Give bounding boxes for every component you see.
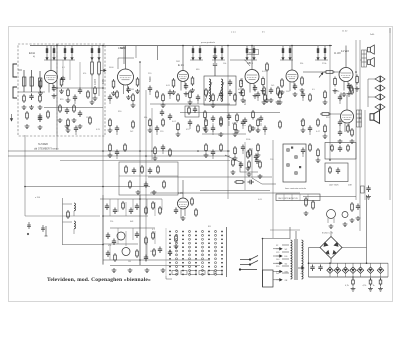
resistor R61	[249, 124, 252, 133]
winding L3	[74, 203, 75, 211]
ground	[174, 244, 179, 249]
ground	[368, 287, 373, 292]
transformer tap 4	[282, 265, 289, 267]
ground	[241, 98, 246, 103]
resistor R108	[329, 166, 332, 174]
ground	[38, 91, 43, 96]
ground	[350, 139, 355, 144]
terminal board dot grid	[169, 231, 223, 276]
ground	[161, 103, 166, 108]
capacitor bypass V1 EF80	[52, 85, 56, 92]
capacitor C17	[338, 95, 342, 102]
capacitor C21	[188, 120, 192, 127]
wire	[273, 279, 276, 281]
wire rail x245	[244, 142, 246, 190]
capacitor C37	[144, 182, 148, 189]
tube V7 EL41	[341, 110, 354, 132]
wire	[169, 96, 171, 99]
capacitor det C2	[228, 90, 232, 97]
potentiometer volume	[303, 72, 326, 78]
capacitor C13	[196, 95, 200, 102]
ground	[65, 124, 70, 129]
resistor R60	[234, 122, 237, 132]
winding L4	[74, 221, 75, 229]
resistor R47	[309, 93, 312, 102]
wire decoupling join	[315, 59, 328, 61]
resistor R1 (decoupling)	[46, 46, 48, 60]
ground	[256, 128, 261, 133]
wire shield rail	[56, 44, 58, 150]
ground	[136, 190, 141, 195]
wire rail	[272, 140, 274, 238]
ground	[253, 94, 258, 99]
antenna terminal lower	[13, 87, 17, 98]
mains switch pole 2	[240, 261, 258, 266]
resistor cathode V2 EBF80	[112, 79, 115, 89]
capacitor C66	[106, 251, 110, 258]
tube V8 PCL82	[178, 198, 189, 218]
power transformer T3 core	[294, 239, 296, 280]
capacitor C49	[65, 108, 69, 115]
wire plate feed V2 EBF80	[125, 46, 127, 70]
resistor R67	[347, 124, 350, 133]
ground	[301, 128, 306, 133]
wire video rail	[139, 62, 141, 265]
wire bus y190	[200, 190, 270, 192]
wire bus y193	[150, 192, 300, 194]
resistor R91	[236, 113, 239, 123]
resistor heater dropper	[305, 197, 308, 207]
detector tuning arrow 2	[217, 82, 224, 101]
ground V6 cathode	[342, 92, 347, 97]
capacitor C59	[105, 204, 109, 211]
wire	[307, 194, 309, 201]
resistor R50	[67, 118, 70, 128]
terminal board bottom lead	[166, 276, 172, 279]
wire defl bottom	[103, 259, 210, 261]
ground	[52, 94, 57, 99]
ground	[111, 91, 116, 96]
wire defl h2	[110, 227, 155, 229]
wire defl top	[100, 198, 162, 200]
wire	[352, 277, 354, 280]
capacitor C68	[158, 247, 162, 254]
wire	[73, 211, 75, 216]
wire	[212, 156, 214, 159]
svg-text:4,7k: 4,7k	[363, 285, 367, 287]
wire rail	[227, 45, 229, 199]
wire defl arm bottom	[63, 244, 104, 246]
wire yoke rail	[262, 239, 264, 288]
resistor defl arm	[67, 210, 70, 219]
resistor tall R-b	[98, 60, 101, 76]
resistor R16 (decoupling)	[324, 46, 326, 60]
ground	[258, 174, 263, 179]
capacitor C42	[243, 118, 247, 125]
resistor R120	[175, 234, 178, 243]
wire plate feed V5 EL41	[291, 46, 293, 71]
wire grid lead V6	[333, 71, 341, 73]
svg-text:1k: 1k	[373, 285, 375, 287]
resistor R54	[149, 118, 152, 128]
tube V1 EF80	[45, 71, 58, 93]
potentiometer knob P4	[294, 171, 298, 175]
ground	[148, 128, 153, 133]
yoke terminal D6	[276, 255, 282, 257]
wire	[368, 96, 375, 98]
terminal board bottom blocks	[172, 271, 222, 275]
wire	[337, 273, 339, 277]
ground	[161, 268, 166, 273]
selenium rectifier MR5	[357, 267, 363, 273]
resistor R57	[197, 124, 200, 133]
wire	[154, 202, 156, 216]
resistor R15 (decoupling)	[317, 46, 319, 60]
ground	[59, 89, 64, 94]
pilot lamp LP2	[342, 212, 348, 218]
capacitor C22	[211, 126, 215, 133]
resistor R53	[132, 120, 135, 129]
wire	[266, 72, 268, 98]
capacitor C19	[115, 126, 119, 133]
resistor R64	[302, 118, 305, 128]
ground	[108, 153, 113, 158]
resistor R56	[177, 122, 180, 132]
wire tweeter feed	[367, 79, 369, 107]
tube V5 EL41	[286, 70, 298, 91]
panel jumper2	[299, 166, 301, 168]
ground	[38, 105, 43, 110]
wire plate feed V4 EBC41	[251, 46, 253, 70]
resistor R107	[347, 144, 350, 152]
capacitor C18	[74, 126, 78, 133]
ground	[153, 156, 158, 161]
resistor cathode V7	[351, 128, 354, 137]
svg-text:47k: 47k	[108, 245, 111, 247]
resistor R63	[279, 120, 282, 129]
wire	[273, 271, 276, 273]
resistor R52	[109, 118, 112, 128]
wire defl bottom2	[110, 265, 200, 267]
wire left bottom run	[25, 215, 100, 217]
svg-text:B 250 C 75: B 250 C 75	[322, 233, 334, 235]
resistor R77	[309, 143, 312, 152]
wire	[273, 255, 276, 257]
antenna terminal upper	[13, 64, 17, 77]
svg-text:5000: 5000	[149, 76, 152, 82]
resistor R49	[351, 86, 354, 95]
wire	[273, 248, 276, 250]
ground	[126, 95, 131, 100]
capacitor C50	[78, 111, 82, 118]
wire	[156, 132, 158, 135]
resistor R111	[122, 201, 125, 210]
wire	[116, 132, 118, 135]
wire	[132, 228, 134, 240]
transformer tap 2	[282, 251, 289, 253]
tweeter LS4	[375, 85, 385, 91]
capacitor C63	[106, 233, 110, 240]
svg-text:0.05: 0.05	[102, 79, 105, 84]
ground	[233, 156, 238, 161]
resistor cathode V4 EBC41	[240, 79, 243, 89]
wire rail x152	[151, 108, 153, 160]
ground	[188, 100, 193, 105]
wire	[132, 199, 134, 210]
wire bridge top feed	[330, 231, 332, 237]
resistor R14 (decoupling)	[289, 46, 291, 60]
resistor R75	[249, 148, 252, 157]
wire decoupling join	[44, 59, 75, 61]
wire plate feed V6 12W6	[345, 46, 347, 68]
ground	[280, 90, 285, 95]
wire	[117, 228, 119, 244]
bridge rectifier B250C75	[320, 237, 342, 259]
resistor tuner lower	[26, 111, 29, 120]
svg-text:SUVREB: SUVREB	[38, 143, 48, 146]
capacitor C small	[61, 76, 65, 83]
ground	[66, 98, 71, 103]
resistor R68	[109, 143, 112, 153]
ground	[171, 90, 176, 95]
ground	[239, 91, 244, 96]
capacitor det C	[228, 80, 232, 87]
capacitor C69	[168, 250, 172, 257]
wire	[220, 98, 222, 101]
ground	[278, 100, 283, 105]
ground	[219, 132, 224, 137]
capacitor dark a	[160, 110, 164, 117]
potentiometer knob P3	[286, 163, 290, 167]
capacitor C44	[239, 162, 243, 169]
resistor R9 (decoupling)	[214, 46, 216, 60]
ground	[251, 126, 256, 131]
terminal arrow left edge	[10, 114, 12, 121]
wire	[161, 199, 163, 210]
resistor R113	[152, 201, 155, 210]
capacitor dark b	[168, 114, 172, 121]
wire	[345, 273, 347, 277]
potentiometer knob P2	[294, 155, 298, 159]
wire to V4 grid	[230, 60, 250, 66]
wire loop mid leg	[135, 46, 137, 58]
ground	[184, 92, 189, 97]
resistor R58	[205, 118, 208, 128]
wire long bus y156	[8, 155, 230, 157]
wire	[228, 121, 230, 126]
svg-text:o o o: o o o	[231, 32, 237, 34]
resistor R74	[234, 146, 237, 156]
ground	[204, 128, 209, 133]
ground	[256, 153, 261, 158]
capacitor bypass V6 12W6	[347, 83, 351, 90]
wire	[302, 154, 304, 157]
wire	[116, 156, 118, 159]
wire long bus y160	[60, 160, 230, 162]
ground	[351, 287, 356, 292]
resistor R117	[114, 253, 117, 262]
wire rail x365	[364, 110, 366, 200]
wire bridge left	[309, 247, 321, 249]
selenium rectifier MR3	[342, 267, 348, 273]
capacitor tuner lower	[38, 114, 42, 121]
wire	[73, 229, 75, 234]
potentiometer knob P1	[286, 148, 290, 152]
capacitor C53	[193, 107, 197, 114]
wire	[125, 202, 127, 216]
capacitor bypass V2 EBF80	[126, 87, 130, 94]
resistor R122	[352, 278, 355, 286]
capacitor C34	[269, 88, 273, 95]
wire	[264, 132, 266, 135]
yoke terminal S2	[276, 248, 282, 250]
boxed label AB1	[247, 50, 259, 55]
svg-text:a 150: a 150	[35, 197, 41, 199]
wire boost rail bottom	[309, 276, 389, 278]
resistor R18	[39, 94, 42, 103]
resistor R66	[324, 124, 327, 134]
wire	[380, 273, 382, 277]
wire video bus	[202, 133, 246, 135]
wire bus y177	[148, 176, 272, 178]
svg-text:11 W2: 11 W2	[341, 49, 349, 53]
wire HT down right	[366, 195, 368, 263]
tweeter LS3	[375, 76, 385, 82]
capacitor C27	[115, 150, 119, 157]
capacitor trimmer left	[27, 222, 31, 235]
resistor V6 screen	[350, 84, 353, 93]
capacitor C31	[301, 148, 305, 155]
resistor R84	[125, 165, 128, 174]
resistor R36	[132, 93, 135, 103]
wire	[299, 194, 301, 201]
wire grid feed V8	[182, 180, 184, 198]
svg-text:22k: 22k	[110, 221, 113, 223]
wire	[339, 101, 341, 104]
wire	[367, 48, 368, 50]
resistor R114	[159, 206, 162, 215]
terminal board right edge	[226, 227, 228, 277]
wire	[370, 277, 372, 280]
capacitor C36	[148, 168, 152, 175]
ground	[90, 100, 95, 105]
svg-text:15k: 15k	[86, 117, 89, 119]
resistor R87	[129, 180, 132, 189]
wire	[244, 125, 246, 126]
wire grid lead V7	[331, 113, 341, 115]
ground	[333, 89, 338, 94]
wire	[189, 126, 191, 129]
capacitor C23	[241, 120, 245, 127]
wire	[212, 132, 214, 135]
capacitor C small2	[78, 88, 82, 95]
resistor R97	[59, 104, 62, 113]
ground	[316, 158, 321, 163]
capacitor C10	[108, 95, 112, 102]
svg-text:11 W2: 11 W2	[334, 52, 341, 55]
wire	[368, 78, 375, 80]
resistor panel b	[259, 160, 262, 169]
ground	[231, 170, 236, 175]
ground	[300, 88, 305, 93]
resistor screen V2 EBF80	[136, 77, 139, 87]
capacitor C55	[338, 130, 342, 137]
terminal board left edge	[165, 228, 167, 276]
wire	[370, 273, 372, 277]
resistor R17	[23, 94, 26, 103]
resistor R88	[163, 180, 166, 189]
wire	[370, 263, 372, 267]
wire	[109, 199, 111, 216]
resistor R78	[317, 148, 320, 158]
capacitor C65	[135, 232, 139, 239]
ground lamp2	[343, 222, 348, 227]
ratio detector can	[204, 76, 236, 105]
ground	[235, 129, 240, 134]
ground	[323, 134, 328, 139]
loudspeaker LS2	[368, 58, 375, 67]
resistor plate V8	[191, 197, 194, 206]
resistor R98	[73, 104, 76, 113]
wire bus y186	[25, 186, 150, 188]
ground	[152, 190, 157, 195]
resistor R89	[204, 110, 207, 120]
resistor R33	[87, 90, 90, 99]
transformer tap 3	[282, 258, 289, 260]
resistor screen V6 12W6	[356, 75, 359, 85]
IF transformer can small	[185, 106, 199, 117]
winding L5	[291, 240, 293, 279]
wire rail	[145, 90, 147, 262]
wire boost rail end	[387, 263, 389, 277]
ground	[233, 132, 238, 137]
ground	[366, 195, 371, 200]
ground	[356, 216, 361, 221]
resistor R55	[162, 118, 165, 127]
wire	[260, 123, 262, 126]
capacitor C29	[211, 150, 215, 157]
wire	[333, 218, 335, 223]
capacitor heater	[356, 204, 360, 211]
resistor R86	[157, 165, 160, 174]
wire heater bus	[303, 196, 356, 198]
wire rail x252	[251, 148, 253, 178]
capacitor C14	[219, 92, 223, 99]
capacitor filter C91	[318, 265, 322, 272]
ground	[128, 268, 133, 273]
ground	[190, 88, 195, 93]
wire	[380, 263, 382, 267]
wire	[337, 263, 339, 267]
selenium rectifier MR7	[377, 267, 383, 273]
ground	[338, 139, 343, 144]
resistor R19	[47, 110, 50, 119]
ground	[269, 98, 274, 103]
wire defl left arm	[62, 198, 64, 245]
yoke connector box	[263, 270, 274, 287]
svg-text:270k: 270k	[322, 63, 326, 65]
winding L2	[221, 79, 223, 101]
resistor R40	[189, 90, 192, 100]
capacitor filter C90	[310, 265, 314, 272]
svg-text:18k: 18k	[300, 121, 303, 123]
switch common lead	[239, 269, 257, 271]
wire	[197, 101, 199, 104]
capacitor C20	[155, 126, 159, 133]
wire	[360, 59, 362, 61]
resistor R73	[220, 143, 223, 152]
transformer top lead	[295, 231, 297, 239]
